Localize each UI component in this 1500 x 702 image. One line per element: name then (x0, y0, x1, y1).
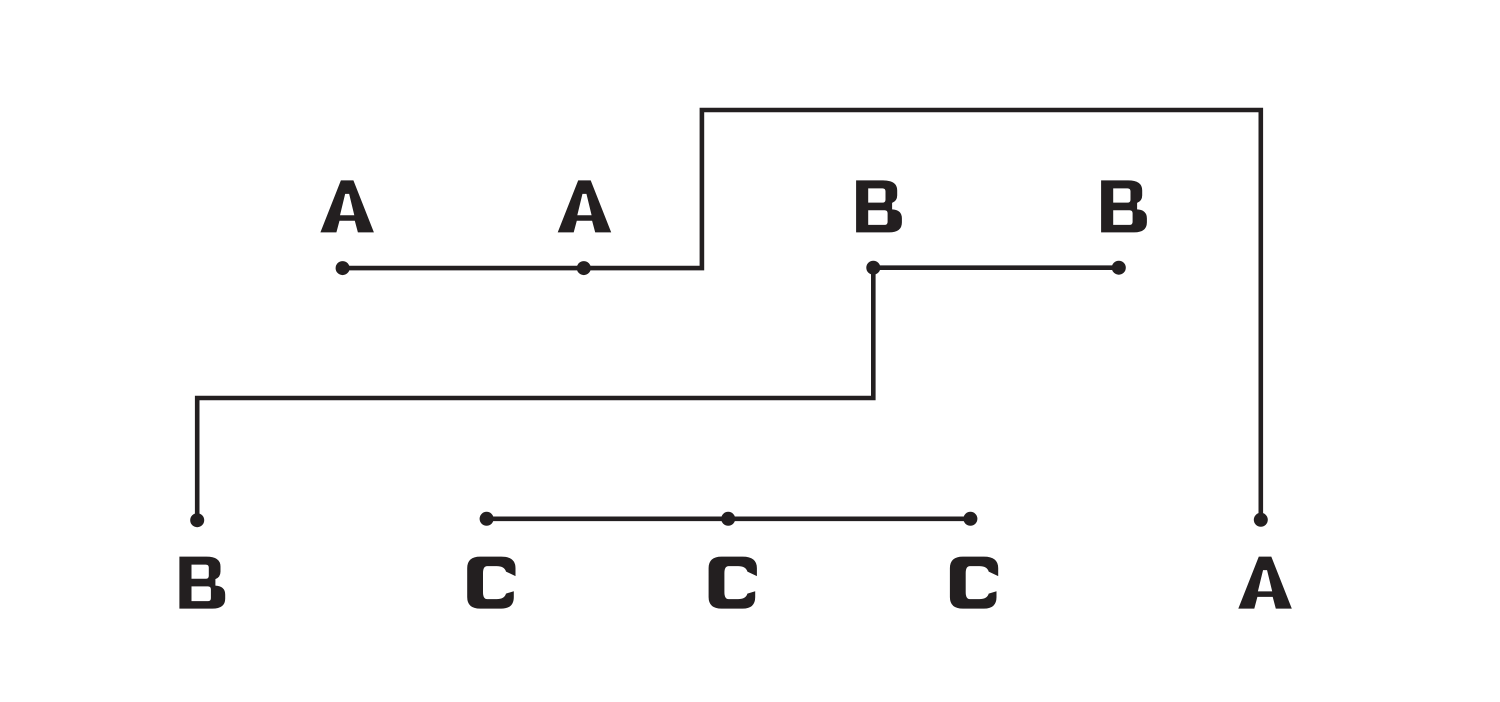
node A1 (336, 261, 350, 275)
node B2 (1112, 261, 1126, 275)
label A (node A1) (320, 180, 374, 232)
node C3 (963, 512, 977, 526)
wire net C (487, 516, 971, 521)
node B3 (190, 513, 204, 527)
label A (node A3) (1238, 557, 1292, 609)
label A (node A2) (558, 180, 612, 232)
node C2 (721, 512, 735, 526)
node A3 (1254, 513, 1268, 527)
node A2 (577, 261, 591, 275)
label B (node B1) (856, 180, 902, 232)
wire net B (197, 268, 1119, 521)
wire net A (343, 110, 1261, 520)
label C (node C2) (709, 557, 757, 609)
node C1 (480, 512, 494, 526)
label B (node B2) (1101, 180, 1147, 232)
node B1 (866, 261, 880, 275)
label C (node C1) (467, 557, 515, 609)
label C (node C3) (950, 557, 998, 609)
label B (node B3) (179, 557, 225, 609)
